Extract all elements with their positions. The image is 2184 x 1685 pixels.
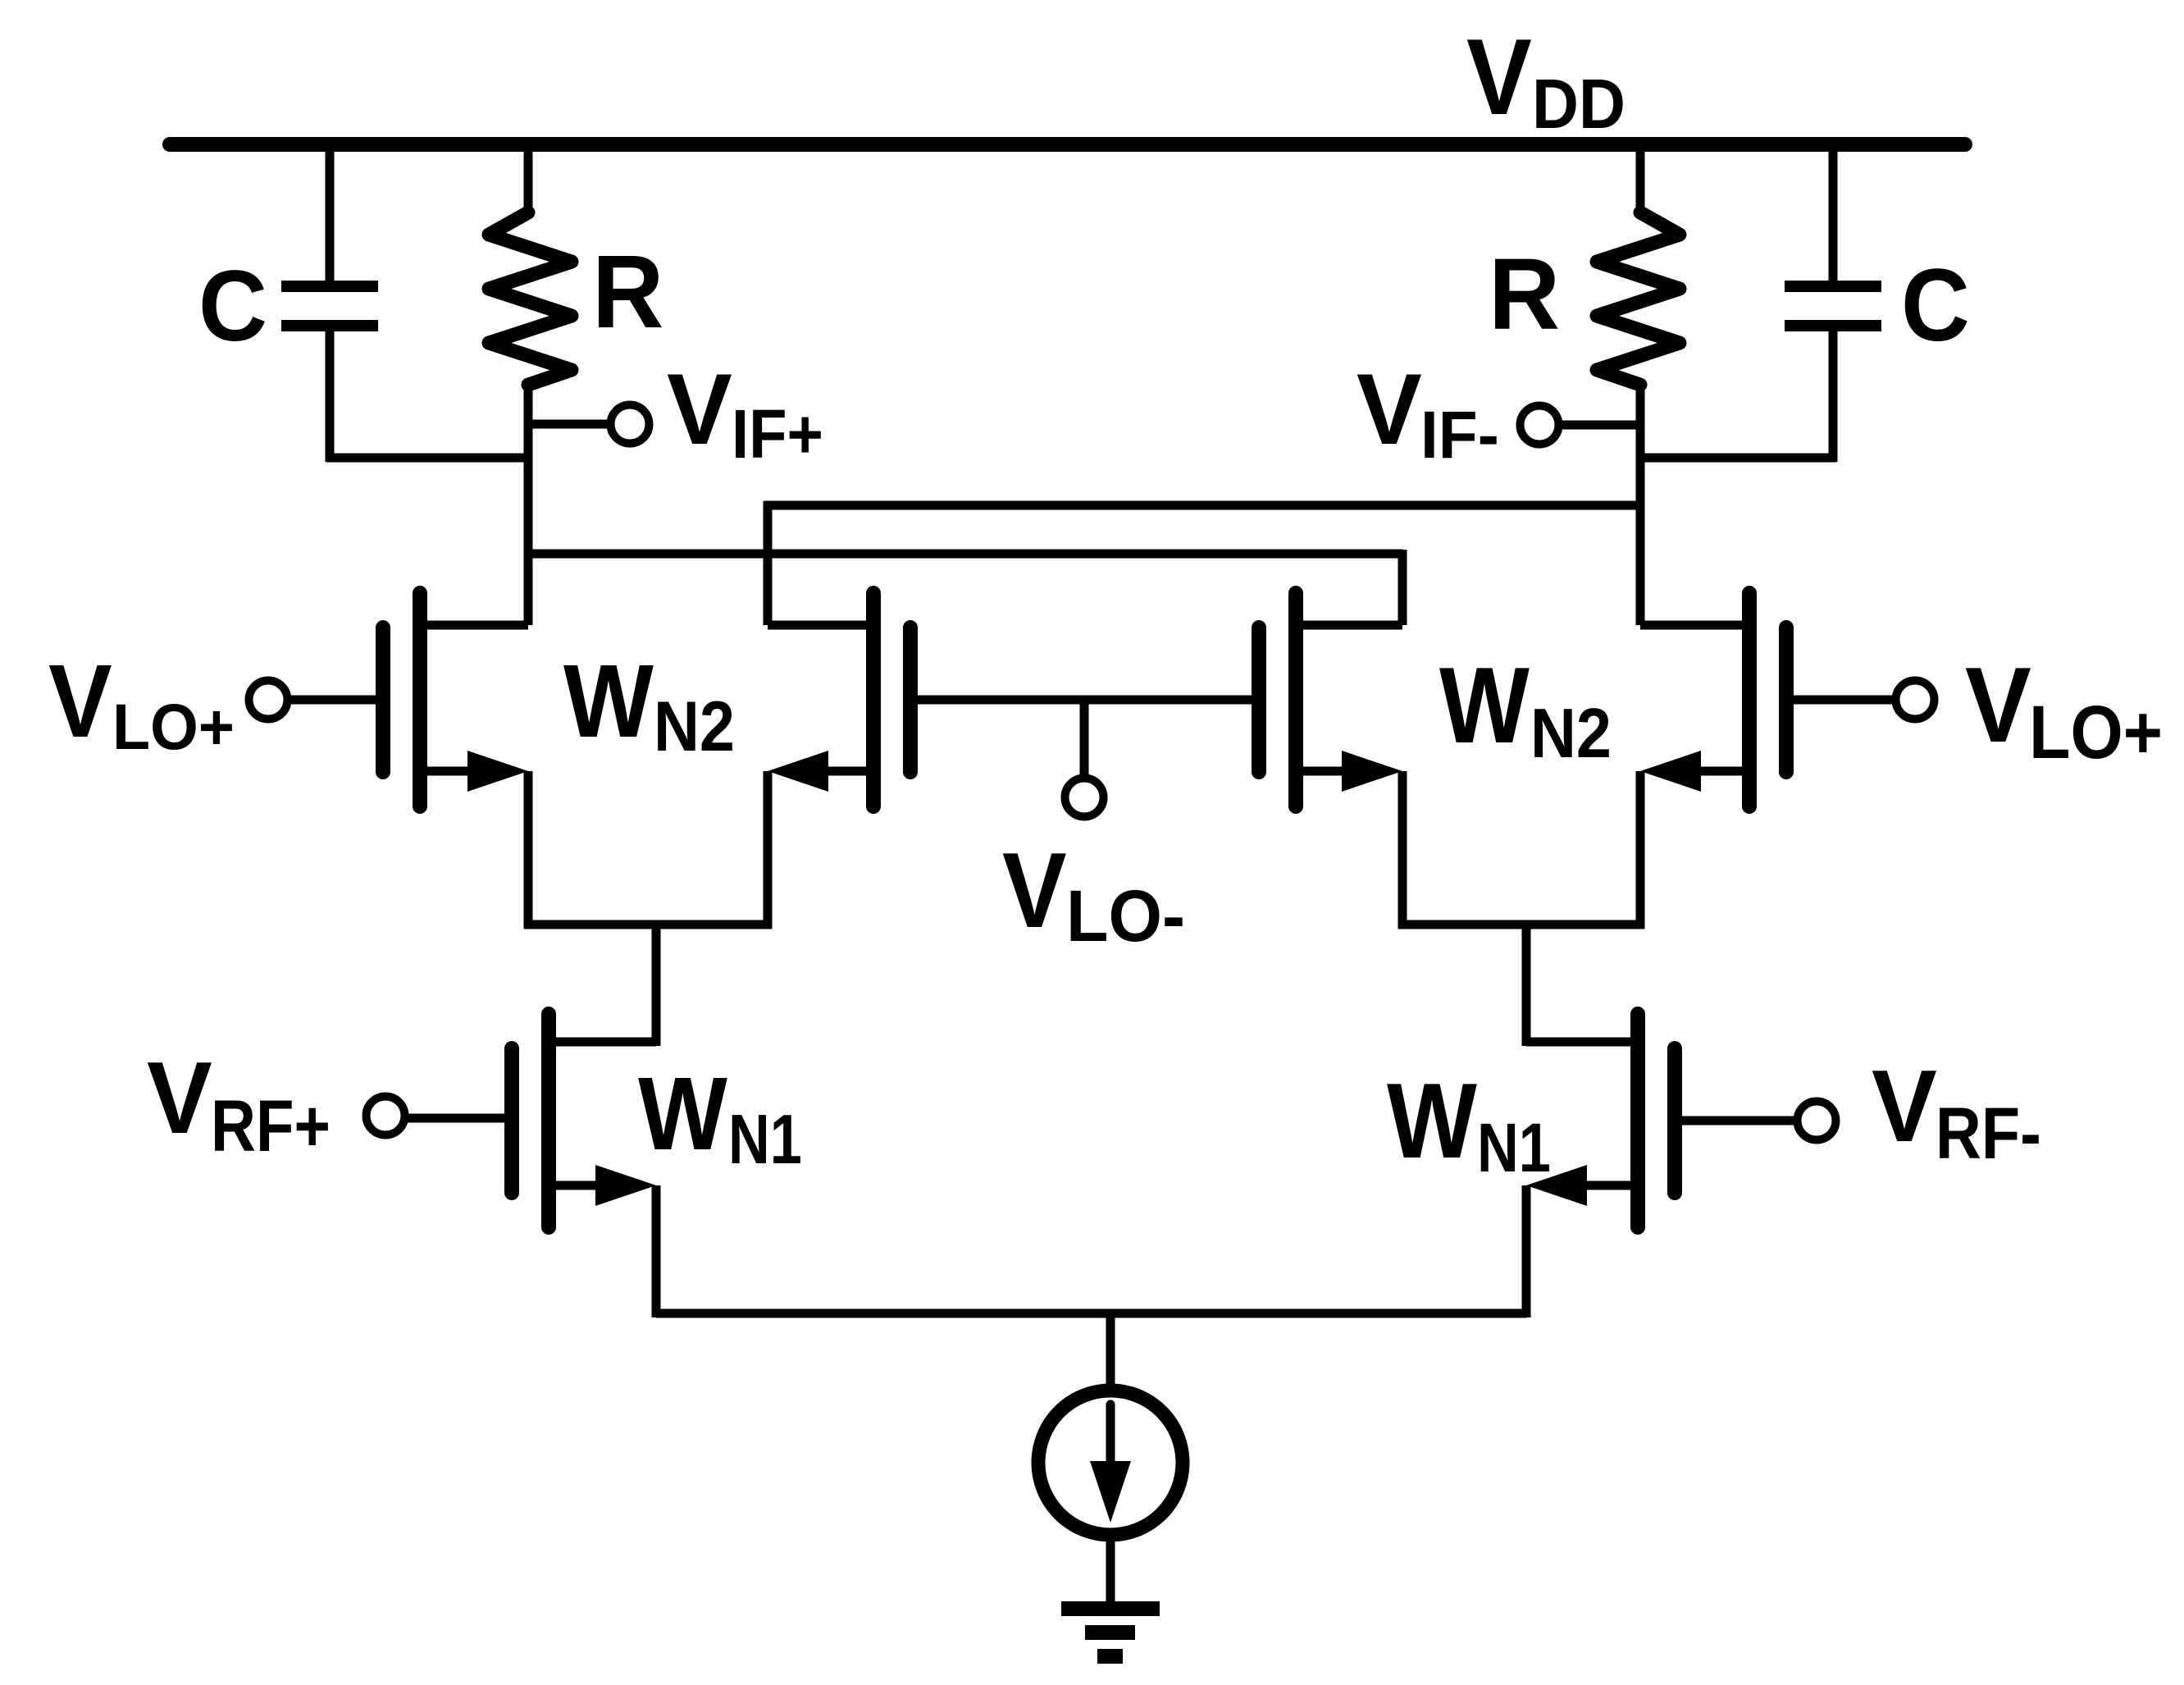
svg-text:W: W bbox=[1439, 645, 1530, 765]
svg-text:V: V bbox=[1466, 16, 1532, 137]
svg-text:C: C bbox=[1901, 247, 1970, 363]
label WN1 right bbox=[1387, 1061, 1551, 1186]
terminal VLO+ left bbox=[249, 681, 288, 719]
svg-text:N1: N1 bbox=[1477, 1108, 1551, 1186]
label VLO+ right bbox=[1965, 645, 2163, 774]
svg-text:W: W bbox=[563, 643, 654, 759]
node VIF- terminal bbox=[1521, 406, 1641, 445]
wire cross line A bbox=[764, 501, 1640, 625]
transistor M1 LO switch left outer (WN2) bbox=[289, 593, 528, 929]
terminal VRF+ bbox=[367, 1097, 405, 1135]
label C (left) bbox=[198, 250, 267, 363]
svg-text:N1: N1 bbox=[728, 1101, 802, 1179]
svg-text:V: V bbox=[1872, 1049, 1937, 1163]
svg-text:V: V bbox=[1356, 354, 1422, 466]
svg-text:V: V bbox=[147, 1041, 212, 1155]
wire left load join bbox=[326, 454, 531, 463]
wire current source to ground bbox=[1106, 1535, 1115, 1604]
svg-text:R: R bbox=[592, 234, 663, 349]
svg-text:C: C bbox=[198, 250, 267, 363]
node VIF+ terminal bbox=[528, 405, 650, 444]
label R (right) bbox=[1489, 239, 1560, 351]
svg-text:V: V bbox=[667, 354, 732, 466]
label VLO- bbox=[1002, 830, 1185, 957]
label VLO+ left bbox=[48, 643, 235, 763]
svg-text:RF+: RF+ bbox=[211, 1085, 331, 1167]
label VIF+ bbox=[667, 354, 823, 473]
wire tail stub to current source bbox=[1106, 1313, 1115, 1395]
svg-text:RF-: RF- bbox=[1936, 1092, 2041, 1174]
transistor M5 RF input left (WN1) bbox=[406, 1014, 656, 1317]
label C (right) bbox=[1901, 247, 1970, 363]
svg-text:W: W bbox=[638, 1056, 727, 1171]
current source I1 bbox=[1038, 1390, 1183, 1535]
svg-text:V: V bbox=[1002, 830, 1067, 950]
svg-text:LO-: LO- bbox=[1066, 874, 1185, 957]
wire tail node bbox=[656, 1309, 1526, 1318]
wire right load join bbox=[1636, 454, 1836, 463]
wire LO gate interconnect bbox=[910, 696, 1259, 705]
svg-text:LO+: LO+ bbox=[112, 690, 235, 763]
wire left pair common source bbox=[524, 925, 772, 1046]
svg-text:V: V bbox=[48, 643, 112, 759]
label WN1 left bbox=[638, 1056, 802, 1179]
svg-text:IF+: IF+ bbox=[732, 395, 823, 473]
resistor R (left) bbox=[489, 144, 572, 625]
label R (left) bbox=[592, 234, 663, 349]
wire right pair common source bbox=[1398, 925, 1644, 1046]
power rail VDD bbox=[170, 137, 1965, 152]
capacitor C (left) bbox=[281, 144, 378, 462]
transistor M2 LO switch left inner (WN2) bbox=[768, 593, 910, 929]
capacitor C (right) bbox=[1785, 144, 1881, 462]
svg-text:W: W bbox=[1387, 1061, 1477, 1180]
svg-text:R: R bbox=[1489, 239, 1560, 351]
svg-text:IF-: IF- bbox=[1420, 398, 1499, 473]
resistor R (right) bbox=[1597, 144, 1680, 625]
wire cross line B bbox=[528, 550, 1402, 625]
label WN2 right bbox=[1439, 645, 1612, 773]
terminal VRF- bbox=[1798, 1102, 1836, 1140]
transistor M6 RF input right (WN1) bbox=[1526, 1014, 1796, 1317]
label VRF+ bbox=[147, 1041, 331, 1167]
svg-text:N2: N2 bbox=[1530, 695, 1612, 773]
svg-text:V: V bbox=[1965, 645, 2031, 765]
svg-text:LO+: LO+ bbox=[2029, 691, 2163, 774]
label VRF- bbox=[1872, 1049, 2041, 1174]
terminal VLO- bbox=[1065, 700, 1104, 817]
label VIF- bbox=[1356, 354, 1499, 473]
transistor M4 LO switch right outer (WN2) bbox=[1640, 593, 1896, 929]
label VDD bbox=[1466, 16, 1625, 144]
label WN2 left bbox=[563, 643, 735, 766]
svg-text:DD: DD bbox=[1532, 66, 1625, 144]
terminal VLO+ right bbox=[1896, 681, 1935, 719]
ground bbox=[1061, 1601, 1160, 1664]
svg-text:N2: N2 bbox=[654, 687, 735, 766]
transistor M3 LO switch right inner (WN2) bbox=[1259, 593, 1402, 929]
